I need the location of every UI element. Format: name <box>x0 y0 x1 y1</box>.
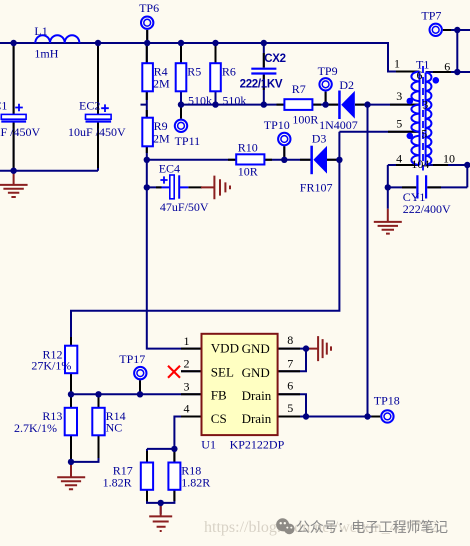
svg-text:1mH: 1mH <box>34 46 58 60</box>
svg-text:6: 6 <box>444 59 450 73</box>
svg-text:EC4: EC4 <box>159 162 180 176</box>
svg-text:3: 3 <box>422 97 428 111</box>
svg-text:1.82R: 1.82R <box>103 475 132 489</box>
svg-text:104: 104 <box>411 157 429 171</box>
svg-text:SEL: SEL <box>211 364 234 379</box>
svg-text:3: 3 <box>396 89 402 103</box>
svg-text:1: 1 <box>394 57 400 71</box>
svg-text:2: 2 <box>184 356 190 370</box>
svg-text:TP9: TP9 <box>318 64 338 78</box>
svg-text:8: 8 <box>287 333 293 347</box>
svg-text:Drain: Drain <box>242 388 272 403</box>
svg-text:222/400V: 222/400V <box>403 202 451 216</box>
svg-text:GND: GND <box>242 365 270 380</box>
svg-text:6: 6 <box>417 68 423 82</box>
svg-text:VDD: VDD <box>211 340 239 355</box>
svg-text:D3: D3 <box>312 131 327 145</box>
svg-text:TP17: TP17 <box>119 352 145 366</box>
svg-text:R5: R5 <box>187 64 201 78</box>
svg-text:100R: 100R <box>292 112 318 126</box>
svg-text:R7: R7 <box>292 82 306 96</box>
svg-text:5: 5 <box>396 117 402 131</box>
svg-text:CX2: CX2 <box>264 53 285 65</box>
svg-text:U1: U1 <box>201 437 216 451</box>
svg-text:FB: FB <box>211 388 227 403</box>
svg-text:D2: D2 <box>339 78 354 92</box>
svg-text:R10: R10 <box>238 140 258 154</box>
svg-text:TP11: TP11 <box>175 134 201 148</box>
svg-text:EC2: EC2 <box>79 99 100 113</box>
svg-text:2M: 2M <box>153 132 170 146</box>
svg-text:222/1KV: 222/1KV <box>240 79 283 91</box>
svg-text:7: 7 <box>287 356 293 370</box>
svg-text:510k: 510k <box>188 93 212 107</box>
svg-text:TP7: TP7 <box>421 8 441 22</box>
svg-text:L1: L1 <box>34 24 47 38</box>
svg-text:TP10: TP10 <box>264 118 290 132</box>
svg-text:5: 5 <box>287 401 293 415</box>
svg-text:510k: 510k <box>222 93 246 107</box>
svg-text:FR107: FR107 <box>300 180 333 194</box>
svg-text:TP18: TP18 <box>374 394 400 408</box>
svg-text:1.82R: 1.82R <box>181 475 210 489</box>
svg-text:10: 10 <box>443 152 455 166</box>
svg-text:10uF /450V: 10uF /450V <box>68 125 126 139</box>
svg-text:10R: 10R <box>238 164 258 178</box>
svg-text:NC: NC <box>106 421 123 435</box>
svg-text:GND: GND <box>242 341 270 356</box>
svg-text:4: 4 <box>184 402 190 416</box>
svg-text:4: 4 <box>396 152 402 166</box>
svg-text:Drain: Drain <box>242 411 272 426</box>
svg-text:47uF/50V: 47uF/50V <box>160 200 209 214</box>
svg-text:R6: R6 <box>222 64 236 78</box>
svg-text:2.7K/1%: 2.7K/1% <box>14 421 57 435</box>
svg-text:10uF /450V: 10uF /450V <box>0 125 41 139</box>
svg-text:6: 6 <box>287 379 293 393</box>
svg-text:公众号：电子工程师笔记: 公众号：电子工程师笔记 <box>296 520 448 536</box>
svg-text:KP2122DP: KP2122DP <box>230 437 285 451</box>
svg-text:C1: C1 <box>0 99 7 113</box>
svg-text:5: 5 <box>421 127 427 141</box>
svg-text:1N4007: 1N4007 <box>319 118 358 132</box>
svg-text:3: 3 <box>184 379 190 393</box>
svg-text:1: 1 <box>184 334 190 348</box>
svg-text:2M: 2M <box>153 77 170 91</box>
svg-text:27K/1%: 27K/1% <box>31 358 71 372</box>
svg-text:TP6: TP6 <box>139 1 159 15</box>
svg-text:CS: CS <box>211 411 227 426</box>
